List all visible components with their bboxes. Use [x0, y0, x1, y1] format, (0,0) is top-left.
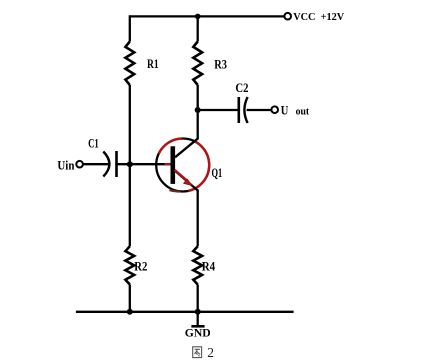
- ground stub: [197, 312, 199, 326]
- node collector/C2 tap junction: [195, 107, 201, 113]
- figure caption 图 2: [193, 347, 202, 358]
- svg-text:U: U: [281, 104, 289, 118]
- emitter diagonal black: [175, 171, 198, 191]
- svg-text:C2: C2: [235, 80, 248, 95]
- emitter red arrowhead: [184, 179, 193, 186]
- wire Uin to C1: [83, 163, 108, 165]
- wire middle vertical lower (R4 to ground): [197, 285, 199, 312]
- top VCC rail wire: [130, 15, 284, 17]
- svg-text:R4: R4: [202, 259, 216, 274]
- terminal U out: [271, 106, 278, 113]
- svg-text:out: out: [296, 107, 310, 118]
- svg-text:R1: R1: [147, 56, 159, 71]
- svg-text:R2: R2: [134, 259, 147, 274]
- svg-text:C1: C1: [88, 135, 99, 150]
- svg-text:Q1: Q1: [212, 165, 223, 180]
- node ground junction left: [127, 309, 133, 315]
- ground bar: [191, 325, 204, 328]
- node base/divider junction: [127, 161, 133, 167]
- collector diagonal: [175, 139, 198, 158]
- wire C1 to base (through divider node): [117, 163, 171, 165]
- wire left vertical middle (R1 to R2): [129, 85, 131, 246]
- svg-text:Uin: Uin: [57, 159, 74, 173]
- emitter red line: [175, 170, 189, 182]
- svg-text:2: 2: [207, 345, 214, 360]
- resistor R2: [125, 246, 134, 284]
- capacitor C1: [103, 151, 116, 177]
- resistor R1: [125, 42, 134, 86]
- resistor R4: [193, 246, 202, 284]
- red tick on base wire: [165, 163, 171, 165]
- wire C2 to U out terminal: [247, 109, 271, 111]
- node ground junction right: [195, 309, 201, 315]
- wire middle vertical (R3 to collector): [197, 85, 199, 140]
- wire middle vertical upper (rail to R3): [197, 15, 199, 41]
- wire left vertical lower (R2 to ground): [129, 285, 131, 312]
- terminal VCC: [284, 13, 291, 20]
- svg-text:VCC +12V: VCC +12V: [293, 11, 344, 23]
- red arc bottom: [170, 190, 181, 191]
- ground rail wire: [76, 311, 294, 313]
- wire left vertical upper (rail to R1): [129, 15, 131, 41]
- circle black: [156, 139, 209, 192]
- wire emitter to R4: [197, 190, 199, 247]
- base bar: [171, 146, 176, 184]
- capacitor C2: [239, 97, 248, 123]
- red arc top-left (92deg to 155deg): [159, 139, 182, 154]
- wire C2 tap horizontal: [198, 109, 238, 111]
- svg-text:R3: R3: [214, 57, 227, 72]
- resistor R3: [193, 42, 202, 86]
- transistor Q1: [156, 139, 209, 192]
- red arc right (from 62deg down to -78deg): [188, 142, 209, 191]
- node rail junction: [195, 14, 201, 20]
- svg-text:GND: GND: [185, 327, 211, 339]
